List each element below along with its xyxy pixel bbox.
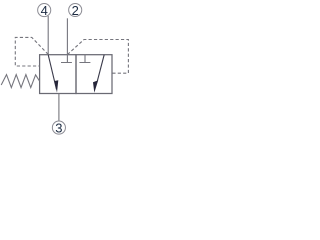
- port circle 2: [69, 3, 82, 16]
- wire port 2 line: [66, 18, 68, 54]
- valve body left position square: [40, 55, 76, 94]
- port circle 3: [52, 121, 65, 134]
- pilot line from port 4 to left end (dashed): [15, 37, 48, 66]
- blocked port T right position: [79, 55, 90, 63]
- flow path arrow left position (port 4 to port 3): [48, 55, 56, 90]
- svg-text:2: 2: [72, 3, 79, 18]
- port circle 4: [38, 4, 51, 17]
- svg-text:3: 3: [55, 120, 62, 135]
- spring (left return spring): [1, 75, 39, 88]
- valve body right position square: [76, 55, 112, 94]
- pilot line from port 2 to right end (dashed): [67, 40, 128, 74]
- wire port 3 line: [58, 94, 60, 122]
- arrowhead left position: [54, 80, 58, 92]
- blocked port T left position (port 2 blocked): [61, 55, 72, 63]
- arrowhead right position: [93, 80, 98, 93]
- svg-text:4: 4: [41, 3, 48, 18]
- wire port 4 line: [47, 16, 49, 55]
- flow path arrow right position (port 2 to port 3): [97, 55, 104, 81]
